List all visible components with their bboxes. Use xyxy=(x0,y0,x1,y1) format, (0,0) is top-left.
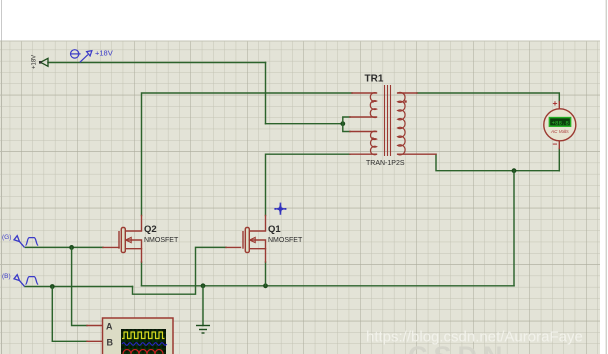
power terminal +18V xyxy=(32,55,49,69)
transistor Q1 xyxy=(243,228,255,253)
pin Q2 drain xyxy=(125,216,141,232)
cursor cross (blue) xyxy=(274,203,286,215)
pin TR1 primary1 bottom xyxy=(350,116,377,118)
svg-text:NMOSFET: NMOSFET xyxy=(144,237,179,244)
TR1 primary winding 1 xyxy=(370,93,376,118)
node G junction xyxy=(69,245,74,250)
wire Q1 source to rail xyxy=(265,262,267,286)
TR1 polarity dot secondary xyxy=(404,100,406,102)
right white band xyxy=(600,0,608,354)
svg-text:B: B xyxy=(107,338,114,348)
generator B xyxy=(14,275,38,287)
TR1 primary winding 2 xyxy=(370,131,376,155)
svg-text:+18V: +18V xyxy=(32,55,38,69)
node secondary return junction xyxy=(512,168,517,173)
wire Q2 drain to primary top xyxy=(142,93,353,216)
wire B down to scope B xyxy=(52,287,87,342)
svg-text:+: + xyxy=(553,98,558,108)
node B junction xyxy=(50,284,55,289)
transistor Q2 xyxy=(119,228,131,253)
svg-text:(B): (B) xyxy=(2,273,11,280)
pin Q1 drain xyxy=(249,216,265,232)
svg-text:NMOSFET: NMOSFET xyxy=(268,237,303,244)
svg-text:AC Volts: AC Volts xyxy=(550,129,569,134)
wire +18V rail horizontal xyxy=(48,62,266,64)
wire center tap upper elbow xyxy=(343,117,350,124)
pin Q2 gate xyxy=(103,246,119,248)
wire meter minus down xyxy=(558,149,560,171)
pin Q2 source and body xyxy=(125,240,141,262)
wire B to Q1 gate xyxy=(133,247,227,294)
wire G down to scope A xyxy=(72,247,87,325)
pin Q1 source and body xyxy=(249,240,265,262)
pin TR1 secondary top xyxy=(398,92,417,94)
pin Q1 gate xyxy=(226,246,241,248)
pin scope A xyxy=(87,325,102,327)
pin meter plus xyxy=(558,102,560,110)
svg-text:CSDN: CSDN xyxy=(408,341,509,354)
svg-text:Q2: Q2 xyxy=(144,224,157,235)
scope trace B blue xyxy=(122,343,167,346)
wire ground rail xyxy=(142,285,515,287)
wire B signal horizontal xyxy=(25,286,133,288)
TR1 core xyxy=(384,85,386,156)
svg-text:A: A xyxy=(106,322,113,332)
svg-text:−: − xyxy=(553,139,558,149)
svg-text:+88.8: +88.8 xyxy=(552,119,570,126)
ground xyxy=(196,326,210,334)
transformer TR1 xyxy=(370,85,406,156)
pin TR1 primary2 bottom xyxy=(350,153,377,155)
pin meter minus xyxy=(558,141,560,149)
node ground rail junction at Q1 source xyxy=(263,283,268,288)
svg-text:TRAN-1P2S: TRAN-1P2S xyxy=(366,160,405,167)
node ground rail junction at ground xyxy=(201,283,206,288)
TR1 polarity dot primary2 xyxy=(371,137,373,139)
scope trace A yellow xyxy=(122,332,165,339)
voltmeter AC xyxy=(544,98,576,149)
wire G signal horizontal xyxy=(25,246,103,248)
wire center tap lower elbow xyxy=(343,124,350,132)
wire +18V to center tap xyxy=(266,123,343,125)
wire +18V vertical drop xyxy=(265,63,267,124)
wire Q1 drain to primary bottom xyxy=(266,154,351,215)
svg-text:Q1: Q1 xyxy=(268,224,281,235)
top white band xyxy=(0,0,608,41)
pin TR1 primary2 top xyxy=(350,131,377,133)
wire Q2 source to rail xyxy=(141,262,143,286)
wire junction down to ground rail xyxy=(513,171,515,286)
scope trace C red xyxy=(123,350,163,354)
wire secondary bottom return xyxy=(436,154,559,171)
pin scope B xyxy=(87,340,102,342)
pin TR1 primary1 top xyxy=(352,92,377,94)
wire rail to ground symbol xyxy=(202,286,204,326)
pin TR1 secondary bottom xyxy=(398,153,436,155)
oscilloscope U1 xyxy=(103,318,174,354)
svg-text:TR1: TR1 xyxy=(365,74,384,85)
TR1 secondary winding xyxy=(398,92,405,154)
svg-text:+18V: +18V xyxy=(95,49,113,58)
window frame edges xyxy=(1,0,3,354)
generator G xyxy=(14,236,38,248)
node center tap junction xyxy=(340,121,345,126)
power source symbol +18V (blue) xyxy=(70,50,92,63)
svg-text:(G): (G) xyxy=(2,234,11,241)
TR1 polarity dot primary1 xyxy=(371,100,373,102)
wire secondary top to meter xyxy=(417,93,559,102)
